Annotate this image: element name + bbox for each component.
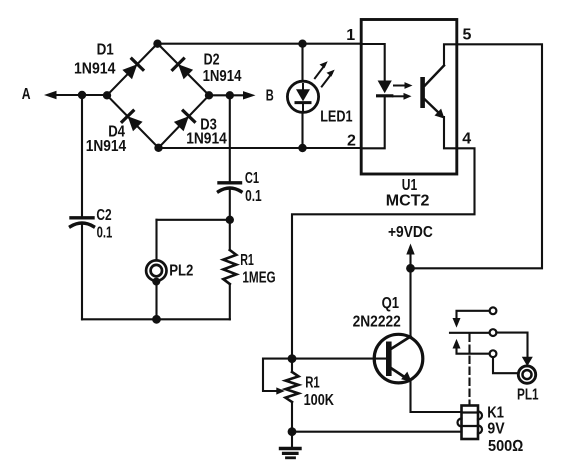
svg-text:0.1: 0.1 — [245, 188, 262, 205]
svg-text:2: 2 — [347, 132, 356, 149]
junction dot bridge bottom — [154, 144, 162, 152]
node A — [0, 0, 1, 1]
relay coil K1 — [458, 406, 483, 440]
wire bridge edge left-top — [107, 44, 158, 96]
svg-text:1N914: 1N914 — [86, 138, 126, 155]
junction dot PL2 bottom — [152, 315, 161, 324]
junction dot B/C1 — [226, 91, 234, 99]
svg-text:1: 1 — [346, 27, 355, 44]
wire bridge edge left-bottom — [107, 95, 159, 148]
wire bridge right to B arrow — [209, 94, 248, 96]
junction dot bridge left — [103, 91, 111, 99]
wire pin5 to +9V net — [411, 44, 543, 268]
ground — [281, 432, 301, 458]
junction dot base node — [288, 354, 297, 363]
svg-text:R1: R1 — [305, 375, 320, 392]
connector PL2 — [146, 260, 166, 285]
wire K1 mechanical link dashed — [468, 335, 470, 406]
wire Q1 emitter to K1 — [411, 380, 462, 412]
node B — [0, 0, 1, 1]
svg-text:5: 5 — [463, 27, 472, 44]
transistor Q1 — [374, 334, 423, 383]
wire PL2 top lead — [155, 220, 157, 261]
wire bridge top to U1 pin 1 — [158, 43, 362, 45]
wire PL2 bottom lead — [155, 283, 157, 319]
wire LED1 top lead — [301, 44, 303, 82]
wire bridge bottom to U1 pin 2 — [159, 147, 362, 149]
wire ground node to K1 — [292, 431, 462, 433]
relay contact NC terminal circle — [490, 350, 497, 357]
svg-text:4: 4 — [462, 131, 471, 148]
svg-text:0.1: 0.1 — [97, 225, 113, 242]
wire U1 pin1 internal — [361, 44, 385, 81]
svg-text:C1: C1 — [245, 170, 259, 187]
capacitor C1 — [219, 95, 242, 220]
wire base node to Q1 — [292, 358, 387, 360]
wire U1 pin4 internal — [444, 117, 457, 148]
junction dot LED1 bottom — [298, 144, 306, 152]
junction dot C1/R1/PL2 node — [226, 216, 234, 224]
svg-text:500Ω: 500Ω — [488, 438, 523, 455]
wire bottom rail C2/PL2/R1 — [82, 318, 230, 320]
wire bridge edge top-right — [158, 44, 210, 96]
capacitor C2 — [71, 95, 94, 319]
diode D3 — [174, 111, 195, 132]
transistor U1 internal phototransistor — [420, 66, 444, 119]
svg-text:D1: D1 — [97, 42, 114, 59]
diode U1 internal LED — [378, 81, 392, 96]
svg-text:+9VDC: +9VDC — [388, 224, 433, 241]
junction dot ground node — [288, 427, 297, 436]
svg-text:1N914: 1N914 — [74, 61, 115, 78]
resistor R1 1MEG — [223, 220, 236, 319]
diode D1 — [122, 59, 142, 80]
diode D2 — [173, 59, 194, 80]
svg-text:U1: U1 — [402, 177, 417, 194]
light arrow upper — [394, 82, 413, 89]
svg-text:B: B — [266, 88, 274, 105]
svg-text:100K: 100K — [304, 392, 335, 409]
junction dot bridge top — [153, 40, 161, 48]
svg-text:A: A — [22, 86, 31, 103]
wire NC contact arm — [453, 339, 490, 354]
wire LED1 bottom lead — [301, 113, 303, 149]
svg-text:MCT2: MCT2 — [386, 193, 430, 210]
wire NO contact arm — [453, 311, 490, 328]
wire contact pivot bar — [450, 332, 490, 334]
LED LED1 — [287, 61, 334, 112]
svg-text:1MEG: 1MEG — [242, 270, 275, 287]
light arrow lower — [393, 93, 412, 100]
op-amp U1 box — [361, 20, 457, 175]
svg-text:PL2: PL2 — [169, 263, 193, 280]
connector PL1 — [518, 366, 535, 383]
svg-text:R1: R1 — [240, 252, 254, 269]
junction dot A/C2 — [78, 91, 86, 99]
svg-text:K1: K1 — [487, 404, 504, 421]
junction dot +9VDC node — [406, 264, 415, 273]
junction dot LED1 top — [298, 40, 306, 48]
svg-text:2N2222: 2N2222 — [353, 314, 401, 331]
wire Q1 collector to +9V node — [409, 268, 411, 336]
svg-text:LED1: LED1 — [320, 109, 352, 126]
wire common contact to PL1 tip — [496, 333, 532, 367]
wire NC contact to PL1 sleeve — [493, 357, 518, 373]
wire U1 pin5 internal — [444, 44, 457, 65]
svg-text:1N914: 1N914 — [203, 68, 242, 85]
wire A to bridge — [82, 94, 107, 96]
relay contact common terminal circle — [490, 329, 497, 336]
relay contact NO terminal circle — [490, 307, 497, 314]
svg-text:9V: 9V — [487, 421, 504, 438]
diode D4 — [122, 111, 143, 132]
svg-text:1N914: 1N914 — [186, 130, 227, 147]
svg-text:C2: C2 — [96, 207, 111, 224]
wire PL2 top rail — [157, 219, 230, 221]
wire U1 pin2 internal — [361, 96, 385, 149]
svg-text:Q1: Q1 — [382, 295, 399, 312]
svg-text:PL1: PL1 — [517, 386, 539, 403]
power +9VDC arrow — [406, 244, 414, 269]
wire bridge edge bottom-right — [159, 95, 210, 148]
wire A arrow — [52, 94, 82, 96]
resistor R1 100K potentiometer — [263, 359, 299, 432]
wire pin4 to Q1 base junction — [292, 148, 475, 358]
svg-text:D2: D2 — [204, 52, 220, 69]
junction dot bridge right — [205, 91, 213, 99]
